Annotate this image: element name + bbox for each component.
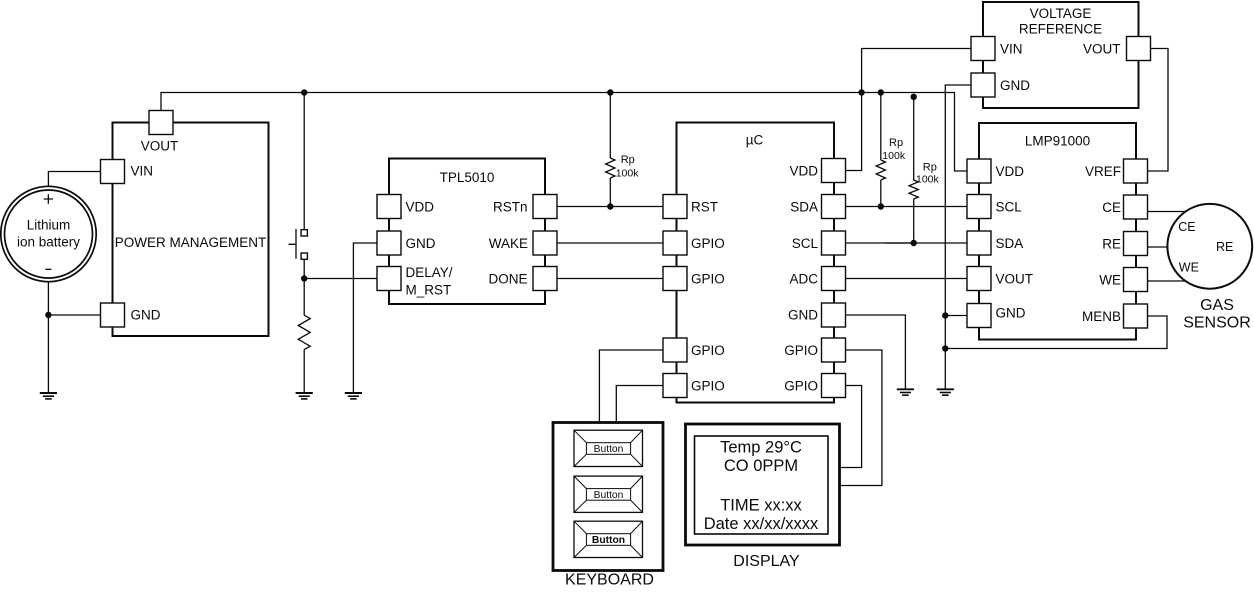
svg-text:GPIO: GPIO [691, 343, 725, 358]
resistor Rp3 zigzag [909, 180, 918, 199]
block TPL5010 [389, 159, 545, 305]
pin uC ADC [822, 267, 846, 291]
svg-text:Lithium: Lithium [27, 218, 71, 233]
pin LMP RE [1124, 232, 1148, 256]
wire RSTn to RST [557, 206, 665, 208]
svg-text:SENSOR: SENSOR [1183, 315, 1251, 332]
pin VREF VOUT [1127, 37, 1151, 61]
junction node rail-Rp1 [607, 89, 613, 95]
svg-text:SCL: SCL [996, 199, 1023, 214]
block DISPLAY outer [686, 424, 840, 545]
ground battery [40, 393, 57, 399]
block KEYBOARD [553, 423, 663, 571]
switch S1 push-button contacts [301, 230, 307, 236]
wire LMP MENB return [945, 316, 1167, 349]
wire uC GPIO to keyboard left [599, 350, 664, 423]
ground TPL5010 [345, 393, 362, 399]
resistor Rp2 zigzag [876, 160, 885, 180]
svg-text:GND: GND [131, 308, 161, 323]
junction node LMP GND [942, 312, 948, 318]
keyboard button 3 [574, 521, 643, 557]
svg-text:MENB: MENB [1082, 309, 1121, 324]
wire LMP WE to sensor [1147, 280, 1186, 282]
svg-text:DONE: DONE [488, 271, 527, 286]
svg-text:WAKE: WAKE [489, 236, 528, 251]
junction node rail-VDD [858, 89, 864, 95]
svg-text:VREF: VREF [1085, 164, 1121, 179]
pin LMP VOUT [967, 267, 991, 291]
wire LMP CE to sensor [1147, 211, 1190, 213]
svg-text:SDA: SDA [996, 236, 1024, 251]
pin LMP VREF [1124, 159, 1148, 183]
svg-text:100k: 100k [916, 174, 940, 186]
svg-text:VOUT: VOUT [1083, 41, 1121, 56]
wire WAKE to GPIO [557, 242, 665, 244]
ground uC [897, 389, 914, 395]
pin uC GPIO row7 right [822, 374, 846, 398]
pin uC GPIO row6 right [822, 338, 846, 362]
junction node Rp2-SDA [878, 203, 884, 209]
pin TPL5010 RSTn [533, 195, 557, 219]
svg-text:100k: 100k [882, 150, 906, 162]
svg-text:REFERENCE: REFERENCE [1019, 22, 1102, 37]
junction node MENB return [942, 345, 948, 351]
svg-text:GPIO: GPIO [784, 378, 818, 393]
svg-text:GND: GND [406, 236, 436, 251]
wire uC GPIO to keyboard right [616, 386, 664, 424]
pin TPL5010 WAKE [533, 231, 557, 255]
pin TPL5010 GND [377, 231, 401, 255]
svg-text:GND: GND [1000, 78, 1030, 93]
wire VDD power rail from VOUT pin to LMP91000 VDD [161, 93, 968, 172]
block DISPLAY inner screen [695, 436, 829, 534]
wire TPL5010 GND to ground [353, 243, 377, 393]
pin uC GPIO row4 left [663, 267, 687, 291]
battery inner circle [5, 190, 93, 278]
wire LMP RE to sensor [1147, 246, 1172, 248]
block VOLTAGE REFERENCE [983, 2, 1139, 108]
svg-text:CE: CE [1102, 200, 1121, 215]
svg-text:GPIO: GPIO [784, 343, 818, 358]
svg-text:ADC: ADC [789, 271, 818, 286]
svg-text:DISPLAY: DISPLAY [733, 553, 800, 570]
svg-text:VDD: VDD [789, 163, 818, 178]
svg-text:GAS: GAS [1200, 297, 1234, 314]
block microcontroller uC [677, 123, 835, 403]
pin VREF GND [971, 73, 995, 97]
gas sensor circle [1167, 204, 1252, 289]
pin uC SCL [822, 231, 846, 255]
svg-text:M_RST: M_RST [406, 282, 452, 297]
pin uC GPIO row7 left [663, 374, 687, 398]
svg-text:TPL5010: TPL5010 [440, 170, 495, 185]
pin uC GPIO row3 left [663, 231, 687, 255]
pin LMP GND [967, 304, 991, 328]
wire battery positive to VIN [48, 172, 101, 189]
svg-text:VOLTAGE: VOLTAGE [1030, 6, 1092, 21]
wire LMP GND stub [945, 315, 967, 317]
resistor R1 pulldown zigzag [298, 315, 310, 349]
wire uC SCL to LMP SDA [845, 242, 968, 244]
svg-text:GPIO: GPIO [691, 271, 725, 286]
switch S1 actuator [289, 229, 297, 259]
ground LMP91000 [937, 389, 954, 395]
junction node Rp1-RST [607, 203, 613, 209]
pin LMP SDA [967, 231, 991, 255]
svg-text:VDD: VDD [406, 199, 435, 214]
pin uC RST [663, 195, 687, 219]
pin LMP SCL [967, 195, 991, 219]
wire DONE to GPIO [557, 278, 665, 280]
svg-text:WE: WE [1179, 261, 1199, 275]
wire battery negative to GND pin and ground [48, 280, 101, 393]
svg-text:SDA: SDA [790, 199, 818, 214]
svg-text:VIN: VIN [1000, 41, 1023, 56]
wire uC GND to ground [845, 315, 905, 389]
keyboard button 1 [574, 430, 643, 466]
svg-text:100k: 100k [616, 167, 640, 179]
pin PM GND [101, 303, 125, 327]
block LMP91000 [979, 123, 1136, 340]
wire VREF VOUT to LMP VREF [1147, 49, 1168, 172]
wire Rp2 leads [880, 93, 882, 207]
svg-text:POWER MANAGEMENT: POWER MANAGEMENT [115, 235, 267, 250]
battery minus mark [45, 268, 51, 270]
svg-text:Rp: Rp [621, 154, 635, 166]
pin LMP WE [1124, 268, 1148, 292]
svg-text:GPIO: GPIO [691, 378, 725, 393]
svg-text:VOUT: VOUT [141, 139, 179, 154]
battery outer circle [1, 186, 96, 281]
svg-text:Button: Button [594, 444, 624, 455]
wire node to pulldown resistor and ground [303, 279, 305, 394]
svg-text:RST: RST [691, 199, 718, 214]
wire Rp3 leads [913, 96, 915, 243]
svg-text:ion battery: ion battery [17, 234, 80, 249]
pin uC VDD [822, 159, 846, 183]
svg-text:RE: RE [1216, 240, 1233, 254]
pin PM VOUT [149, 111, 173, 135]
resistor Rp1 zigzag [606, 158, 615, 178]
wire uC GPIO to display lower [840, 386, 862, 468]
ground pulldown resistor [296, 393, 313, 399]
svg-text:Temp 29°C: Temp 29°C [720, 439, 802, 457]
svg-text:RE: RE [1102, 236, 1121, 251]
svg-text:SCL: SCL [792, 236, 819, 251]
svg-text:Date xx/xx/xxxx: Date xx/xx/xxxx [704, 515, 819, 533]
junction node battery GND [45, 312, 51, 318]
junction node switch-resistor [301, 275, 307, 281]
svg-text:VOUT: VOUT [996, 271, 1034, 286]
svg-text:KEYBOARD: KEYBOARD [565, 572, 654, 589]
pin TPL5010 DONE [533, 267, 557, 291]
pin TPL5010 VDD [377, 195, 401, 219]
svg-text:LMP91000: LMP91000 [1025, 134, 1090, 149]
pin uC GND [822, 303, 846, 327]
wire uC GPIO to display upper [840, 350, 882, 486]
pin uC GPIO row6 left [663, 338, 687, 362]
svg-text:RSTn: RSTn [493, 199, 528, 214]
wire Rp1 leads [609, 93, 611, 207]
junction node rail-Rp2 [878, 89, 884, 95]
svg-text:Rp: Rp [923, 162, 937, 174]
junction node Rp3-SCL [911, 240, 917, 246]
wire uC VDD to rail and to VREF VIN [845, 49, 971, 171]
svg-text:Button: Button [594, 490, 624, 501]
pin VREF VIN [971, 37, 995, 61]
wire uC SDA to LMP SCL [845, 206, 968, 208]
pin LMP MENB [1124, 304, 1148, 328]
wire uC ADC to LMP VOUT [845, 278, 968, 280]
svg-text:VIN: VIN [131, 164, 154, 179]
pin PM VIN [101, 160, 125, 184]
pin TPL5010 DELAY/M_RST [377, 267, 401, 291]
wire switch bottom contact to node [304, 259, 377, 279]
pin LMP CE [1124, 195, 1148, 219]
svg-text:GND: GND [996, 306, 1026, 321]
svg-text:Button: Button [592, 535, 625, 546]
svg-text:µC: µC [746, 132, 764, 147]
battery plus mark [44, 194, 53, 203]
svg-text:DELAY/: DELAY/ [406, 265, 453, 280]
junction node rail-switch [301, 89, 307, 95]
wire SCL overlap segment [885, 242, 914, 244]
block POWER MANAGEMENT [113, 123, 269, 337]
wire VREF GND down to ground [945, 85, 971, 389]
svg-text:CE: CE [1178, 220, 1195, 234]
keyboard button 2 [574, 476, 643, 512]
svg-text:TIME xx:xx: TIME xx:xx [720, 497, 802, 515]
junction node rail-Rp3 [911, 94, 917, 100]
svg-text:VDD: VDD [996, 164, 1025, 179]
svg-text:CO 0PPM: CO 0PPM [724, 457, 798, 475]
svg-text:GND: GND [788, 307, 818, 322]
svg-text:GPIO: GPIO [691, 236, 725, 251]
wire rail to switch top contact [303, 93, 305, 231]
svg-text:Rp: Rp [889, 137, 903, 149]
svg-text:WE: WE [1099, 272, 1121, 287]
pin uC SDA [822, 195, 846, 219]
pin LMP VDD [967, 159, 991, 183]
